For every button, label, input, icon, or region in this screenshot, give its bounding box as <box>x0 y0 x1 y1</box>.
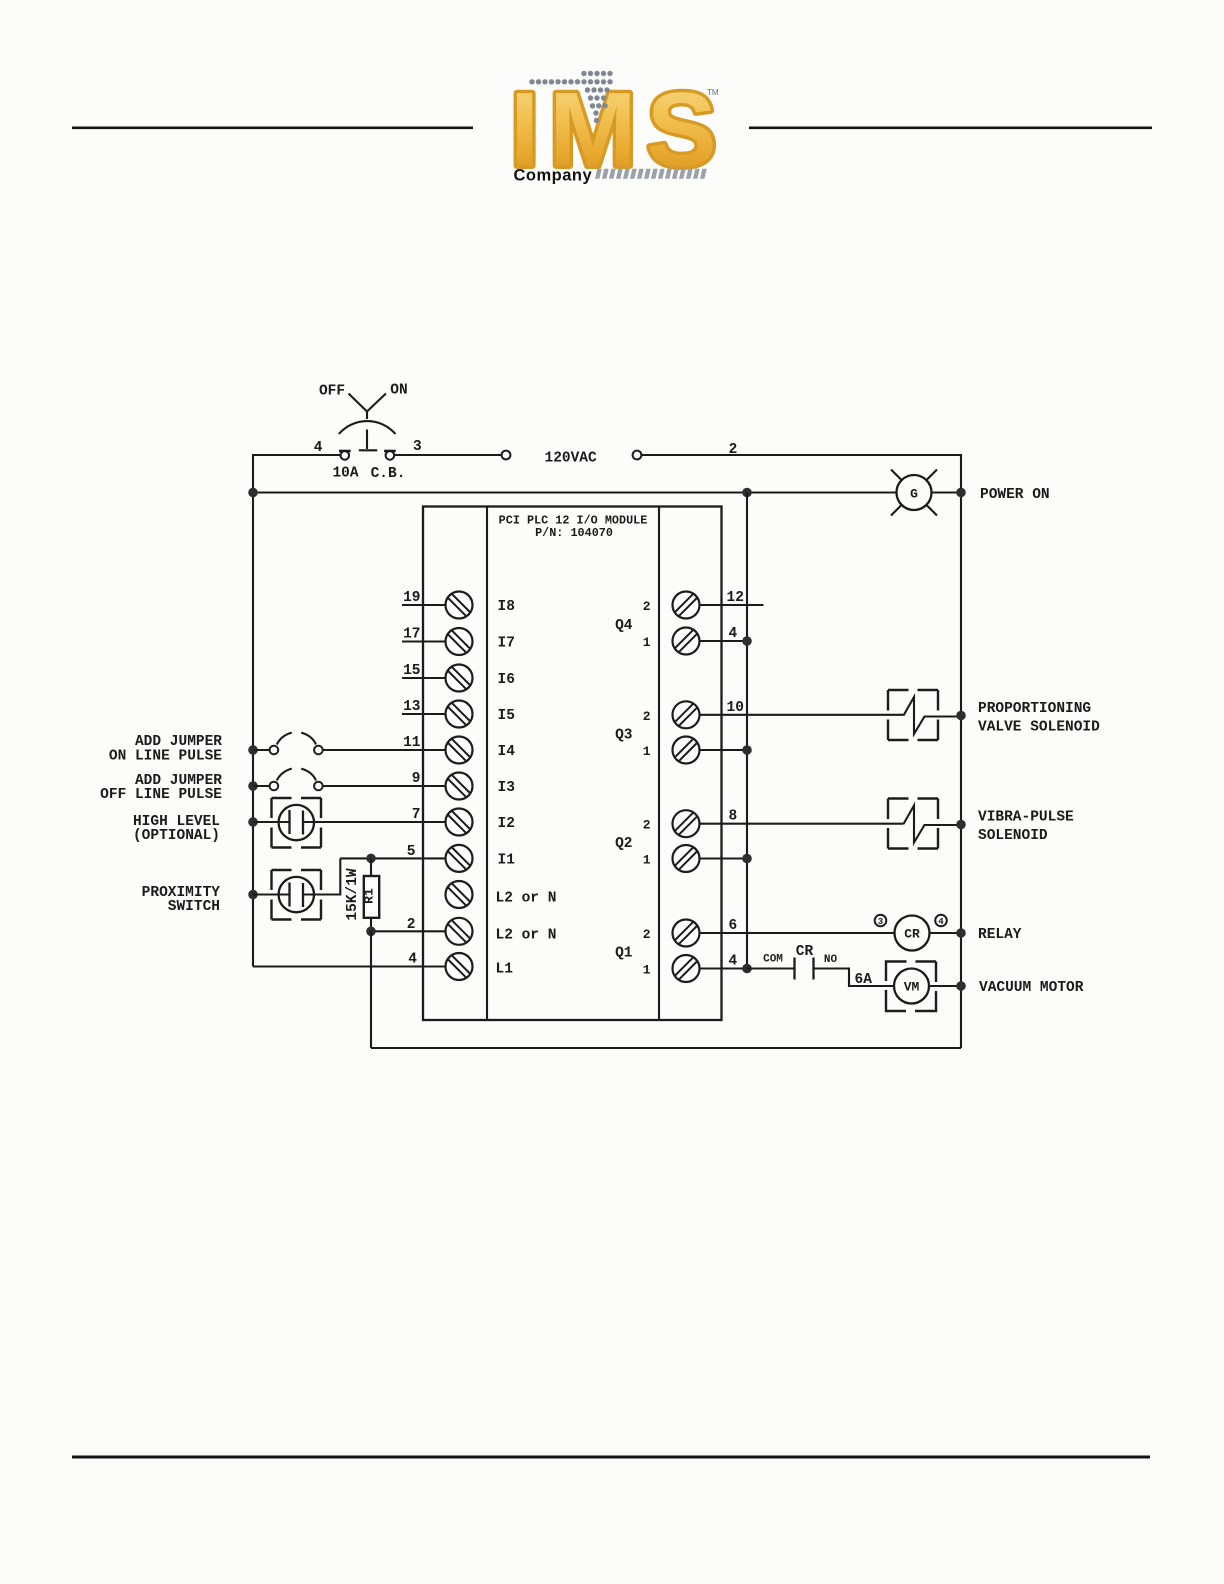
input wire 5 <box>340 857 445 859</box>
vibra-pulse solenoid zigzag <box>904 806 962 843</box>
svg-text:ON: ON <box>390 383 407 399</box>
svg-text:VACUUM MOTOR: VACUUM MOTOR <box>979 980 1084 996</box>
proportioning valve solenoid square <box>888 690 938 740</box>
svg-text:2: 2 <box>643 709 651 724</box>
svg-text:120VAC: 120VAC <box>545 451 598 467</box>
svg-text:(OPTIONAL): (OPTIONAL) <box>133 828 220 844</box>
jumper OFF line pulse contacts <box>270 782 279 791</box>
svg-text:1: 1 <box>643 635 651 650</box>
pilot lamp G <box>897 475 932 510</box>
input stub 19 <box>402 604 446 606</box>
wire lamp to right bus <box>932 491 962 493</box>
junction vibra bus <box>956 820 966 830</box>
screw terminal Q3-1 <box>673 737 700 764</box>
svg-text:2: 2 <box>643 927 651 942</box>
svg-text:4: 4 <box>408 952 417 968</box>
PLC I/O bus vertical <box>746 493 748 969</box>
svg-text:L2 or N: L2 or N <box>496 891 557 907</box>
svg-text:4: 4 <box>314 440 323 456</box>
switch toggle lines <box>349 394 386 420</box>
wire CR to bus <box>930 932 962 934</box>
junction PLC bus top <box>742 488 752 498</box>
wire VM to bus <box>929 985 961 987</box>
jumper ON arc <box>277 733 292 745</box>
input stub 17 <box>402 640 446 642</box>
junction bus jumper ON <box>248 745 258 755</box>
svg-text:6A: 6A <box>855 972 873 988</box>
screw terminal I7 <box>446 628 473 655</box>
svg-text:Company: Company <box>514 167 593 185</box>
junction resistor bottom <box>366 927 376 937</box>
screw terminal I1 <box>446 845 473 872</box>
output wire 6 <box>699 932 895 934</box>
open circle node right of 120VAC <box>633 451 642 460</box>
svg-text:CR: CR <box>796 944 814 960</box>
svg-text:SOLENOID: SOLENOID <box>978 828 1048 844</box>
screw terminal I5 <box>446 701 473 728</box>
CR contact COM bar <box>793 958 795 980</box>
svg-text:4: 4 <box>938 917 944 927</box>
svg-text:VIBRA-PULSE: VIBRA-PULSE <box>978 810 1074 826</box>
PLC module box <box>423 507 722 1021</box>
circuit breaker CB terminal 4 <box>339 451 351 460</box>
svg-text:3: 3 <box>413 439 422 455</box>
output wire 12 <box>699 604 764 606</box>
wire Q1-1 to CR contact <box>747 967 795 969</box>
screw terminal Q4-2 <box>673 592 700 619</box>
junction left bus neutral <box>248 488 258 498</box>
proximity switch plates <box>288 883 290 907</box>
vacuum motor VM circle <box>894 969 929 1004</box>
junction bus jumper OFF <box>248 781 258 791</box>
junction bus proximity <box>248 890 258 900</box>
screw terminal I2 <box>446 809 473 836</box>
junction Q2-1 bus <box>742 854 752 864</box>
svg-text:C.B.: C.B. <box>371 466 406 482</box>
svg-text:NO: NO <box>824 954 838 966</box>
svg-text:6: 6 <box>729 918 738 934</box>
junction CR bus <box>956 928 966 938</box>
wire L1 to terminal 4 <box>253 965 446 967</box>
svg-text:R1: R1 <box>362 888 377 904</box>
wire bus into proximity switch <box>253 893 290 895</box>
proximity switch circle <box>279 877 314 912</box>
screw terminal Q2-2 <box>673 810 700 837</box>
junction VM bus <box>956 981 966 991</box>
proportioning valve solenoid zigzag <box>904 697 962 734</box>
junction resistor top <box>366 854 376 864</box>
wire proximity to node 5 <box>303 858 340 894</box>
high level sensor circle <box>279 805 314 840</box>
screw terminal L1 <box>446 953 473 980</box>
screw terminal L2N1 <box>446 881 473 908</box>
svg-text:I3: I3 <box>498 780 515 796</box>
screw terminal L2N2 <box>446 918 473 945</box>
screw terminal I3 <box>446 773 473 800</box>
svg-text:2: 2 <box>643 818 651 833</box>
svg-text:15: 15 <box>403 663 420 679</box>
svg-text:VALVE SOLENOID: VALVE SOLENOID <box>978 720 1100 736</box>
screw terminal I8 <box>446 592 473 619</box>
IMS logo dots triangle <box>585 87 610 123</box>
svg-text:8: 8 <box>729 809 738 825</box>
svg-text:2: 2 <box>407 917 416 933</box>
screw terminal Q3-2 <box>673 701 700 728</box>
wire neutral row <box>253 491 897 493</box>
svg-text:I4: I4 <box>498 744 516 760</box>
svg-text:TM: TM <box>707 88 719 97</box>
svg-text:7: 7 <box>412 807 421 823</box>
input stub 15 <box>402 677 446 679</box>
output wire 10 <box>699 714 904 716</box>
wire bus to jumper ON <box>253 749 270 751</box>
screw terminal Q2-1 <box>673 845 700 872</box>
vibra-pulse solenoid square <box>888 799 938 849</box>
IMS logo dots row1 <box>581 71 612 76</box>
svg-text:OFF: OFF <box>319 384 345 400</box>
PLC module inner line right <box>658 507 660 1021</box>
IMS logo dots row2 <box>529 79 612 84</box>
input wire 11 <box>323 749 446 751</box>
resistor R1 leads <box>370 858 372 876</box>
screw terminal I6 <box>446 665 473 692</box>
svg-text:I8: I8 <box>498 599 515 615</box>
wire CB to 120VAC gap <box>394 454 502 456</box>
high level sensor square <box>272 798 322 848</box>
svg-text:I5: I5 <box>498 708 515 724</box>
input wire 2 <box>371 930 446 932</box>
proximity switch square <box>272 870 322 920</box>
svg-text:PROPORTIONING: PROPORTIONING <box>978 701 1091 717</box>
relay coil CR <box>895 916 930 951</box>
output wire 8 <box>699 823 904 825</box>
svg-text:10: 10 <box>727 700 744 716</box>
svg-text:SWITCH: SWITCH <box>168 899 220 915</box>
output wire Q2-1 <box>699 857 747 859</box>
resistor R1 body <box>364 876 379 918</box>
svg-text:L2 or N: L2 or N <box>496 927 557 943</box>
junction lamp right bus <box>956 488 966 498</box>
svg-text:I7: I7 <box>498 636 515 652</box>
PLC module inner line left <box>486 507 488 1021</box>
header rule right <box>749 127 1152 130</box>
svg-text:4: 4 <box>729 954 738 970</box>
input stub 13 <box>402 713 446 715</box>
wire contact to vacuum motor <box>814 969 895 987</box>
svg-text:3: 3 <box>878 917 883 927</box>
svg-text:1: 1 <box>643 744 651 759</box>
wire bus to jumper OFF <box>253 785 270 787</box>
svg-text:Q1: Q1 <box>615 946 633 962</box>
wire L1 feed top <box>253 455 341 967</box>
output wire Q3-1 <box>699 749 747 751</box>
svg-text:17: 17 <box>403 627 420 643</box>
output wire Q1-1 <box>699 967 747 969</box>
screw terminal I4 <box>446 737 473 764</box>
input wire 7 <box>303 821 446 823</box>
svg-text:I6: I6 <box>498 672 515 688</box>
svg-text:13: 13 <box>403 699 420 715</box>
svg-text:Q2: Q2 <box>615 836 632 852</box>
svg-text:POWER ON: POWER ON <box>980 487 1050 503</box>
svg-text:CR: CR <box>904 927 920 942</box>
junction Q1-1 bus <box>742 964 752 974</box>
wire resistor bottom to return <box>370 931 372 1048</box>
svg-text:19: 19 <box>403 590 420 606</box>
jumper ON line pulse contacts <box>270 746 279 755</box>
svg-text:I2: I2 <box>498 816 515 832</box>
junction bus high level <box>248 817 258 827</box>
svg-text:I1: I1 <box>498 852 516 868</box>
wire bus into high level sensor <box>253 821 290 823</box>
wire bottom return <box>371 1047 961 1049</box>
input wire 9 <box>323 785 446 787</box>
svg-text:4: 4 <box>729 626 738 642</box>
svg-text:L1: L1 <box>496 962 514 978</box>
vacuum motor square <box>886 962 936 1012</box>
svg-text:VM: VM <box>904 980 920 995</box>
header rule left <box>72 127 473 130</box>
IMS logo stripes <box>595 169 707 179</box>
svg-text:11: 11 <box>403 735 421 751</box>
svg-text:9: 9 <box>412 771 421 787</box>
svg-text:G: G <box>910 487 918 502</box>
svg-text:ON LINE PULSE: ON LINE PULSE <box>109 749 222 765</box>
svg-text:Q3: Q3 <box>615 728 632 744</box>
jumper OFF arc <box>277 769 292 781</box>
svg-text:12: 12 <box>727 590 744 606</box>
svg-text:10A: 10A <box>332 466 358 482</box>
svg-text:2: 2 <box>643 599 651 614</box>
circuit breaker lever <box>359 430 377 451</box>
junction Q3-1 bus <box>742 745 752 755</box>
svg-text:P/N: 104070: P/N: 104070 <box>535 526 613 540</box>
svg-text:OFF LINE PULSE: OFF LINE PULSE <box>100 787 222 803</box>
junction Q4-1 bus <box>742 636 752 646</box>
wire node 2 to right bus <box>642 455 962 1048</box>
circuit breaker CB terminal 3 <box>384 451 396 460</box>
relay coil CR pin 3 <box>875 915 887 927</box>
CR contact NO bar <box>812 958 814 980</box>
open circle node left of 120VAC <box>502 451 511 460</box>
circuit breaker dome arc <box>339 421 396 434</box>
svg-text:COM: COM <box>763 954 783 966</box>
relay coil CR pin 4 <box>935 915 947 927</box>
junction proportioning bus <box>956 711 966 721</box>
svg-text:15K/1W: 15K/1W <box>345 868 361 921</box>
svg-text:1: 1 <box>643 853 651 868</box>
pilot lamp G rays <box>891 470 937 516</box>
screw terminal Q1-1 <box>673 955 700 982</box>
screw terminal Q1-2 <box>673 920 700 947</box>
svg-text:Q4: Q4 <box>615 618 633 634</box>
svg-text:2: 2 <box>729 442 738 458</box>
svg-text:RELAY: RELAY <box>978 927 1022 943</box>
footer rule <box>72 1456 1150 1459</box>
svg-text:5: 5 <box>407 844 416 860</box>
high level sensor plates <box>288 810 290 834</box>
svg-text:1: 1 <box>643 963 651 978</box>
screw terminal Q4-1 <box>673 628 700 655</box>
output wire 4 Q4 <box>699 640 747 642</box>
